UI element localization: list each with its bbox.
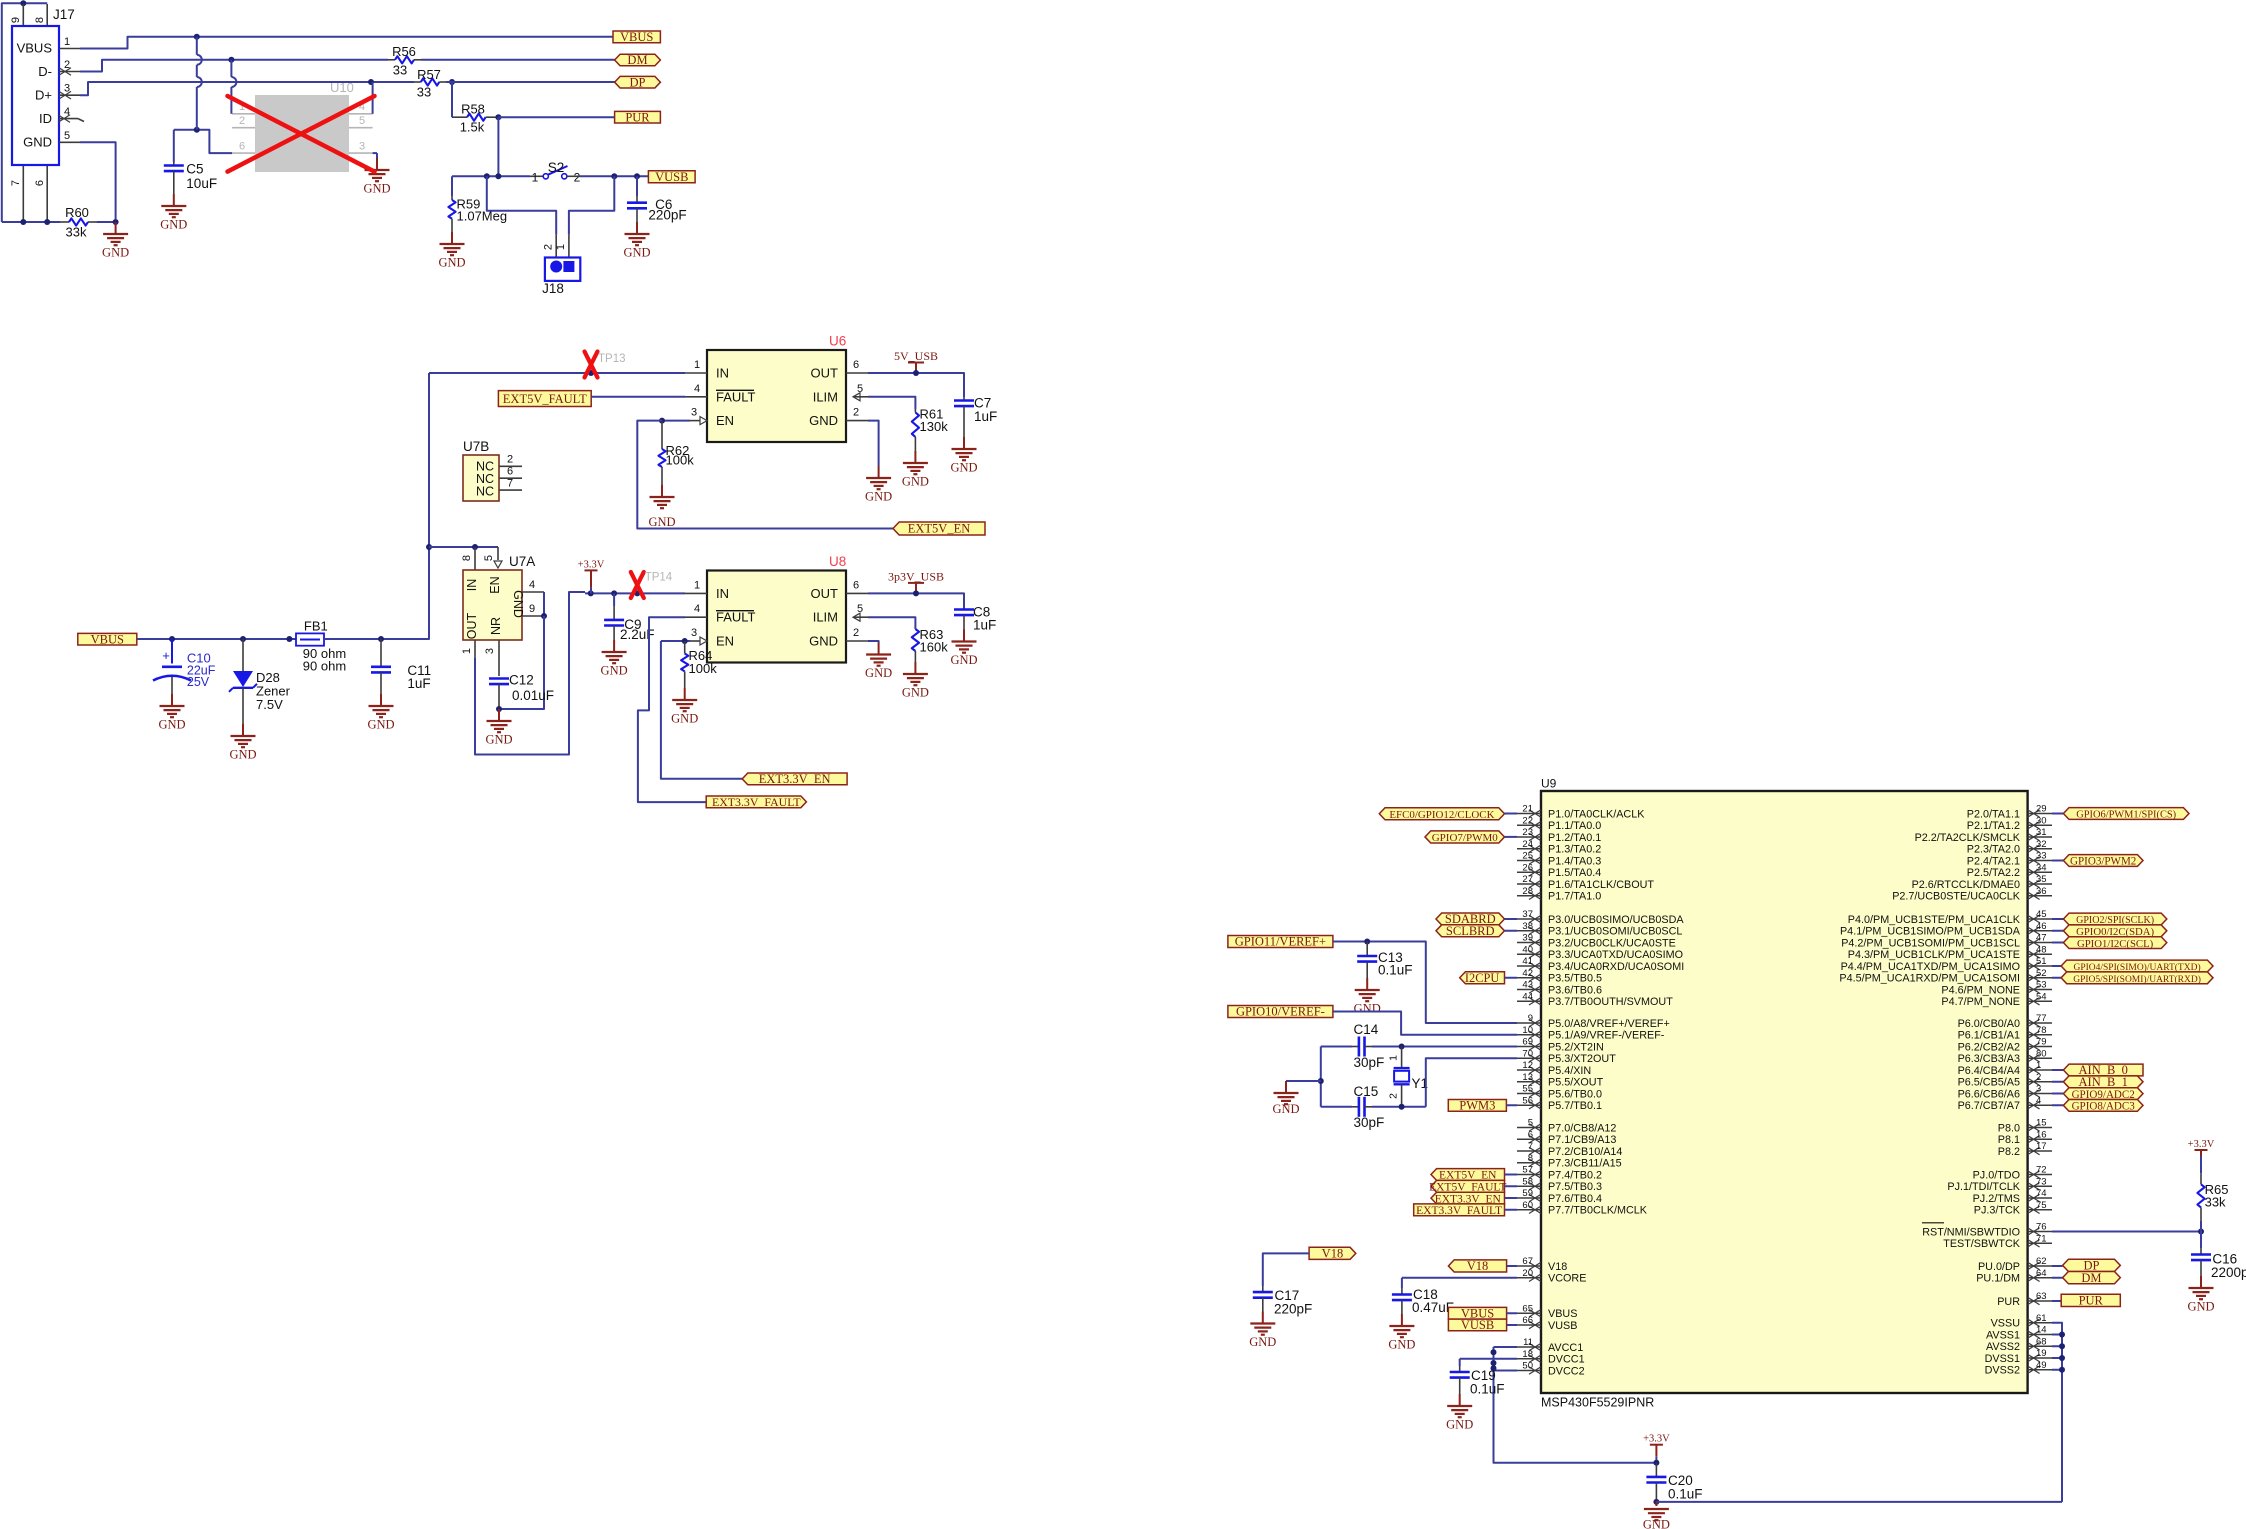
svg-text:65: 65: [1522, 1303, 1533, 1314]
svg-text:SCLBRD: SCLBRD: [1446, 924, 1495, 938]
svg-text:51: 51: [2036, 956, 2047, 967]
J17 pin 5 stub: [59, 141, 80, 143]
svg-text:1: 1: [2036, 1060, 2041, 1071]
svg-text:GPIO6/PWM1/SPI(CS): GPIO6/PWM1/SPI(CS): [2076, 810, 2176, 821]
svg-text:OUT: OUT: [465, 612, 479, 639]
svg-text:130k: 130k: [920, 419, 949, 434]
svg-text:77: 77: [2036, 1013, 2047, 1024]
svg-text:67: 67: [1522, 1256, 1533, 1267]
net flag DP (U9): [2052, 1265, 2063, 1267]
capacitor C6: [636, 176, 638, 196]
svg-text:GND: GND: [623, 246, 650, 260]
svg-text:24: 24: [1522, 839, 1533, 850]
svg-text:U7A: U7A: [509, 554, 535, 569]
svg-text:P1.4/TA0.3: P1.4/TA0.3: [1548, 855, 1601, 867]
svg-text:AVCC1: AVCC1: [1548, 1342, 1583, 1354]
ground (C18): [1401, 1300, 1403, 1314]
svg-text:75: 75: [2036, 1200, 2047, 1211]
svg-text:P3.5/TB0.5: P3.5/TB0.5: [1548, 973, 1602, 985]
capacitor C15: [1321, 1106, 1352, 1108]
svg-text:3p3V_USB: 3p3V_USB: [888, 569, 944, 583]
svg-text:0.1uF: 0.1uF: [1470, 1382, 1505, 1397]
net flag GPIO7/PWM0: [1425, 831, 1505, 843]
svg-text:AIN_B_1: AIN_B_1: [2079, 1075, 2128, 1089]
svg-text:33: 33: [2036, 851, 2047, 862]
ground (C19): [1459, 1378, 1461, 1394]
net flag I2CPU: [1460, 972, 1505, 984]
svg-text:58: 58: [1522, 1176, 1533, 1187]
wire U8 OUT to C8: [868, 593, 964, 609]
ground (C11): [380, 672, 382, 694]
svg-text:P2.7/UCB0STE/UCA0CLK: P2.7/UCB0STE/UCA0CLK: [1892, 891, 2021, 903]
capacitor C5: [173, 130, 175, 162]
net flag GPIO8/ADC3: [2052, 1104, 2063, 1106]
U8 pin 2 stub: [846, 640, 868, 642]
svg-text:GND: GND: [1249, 1335, 1276, 1349]
svg-text:54: 54: [2036, 991, 2047, 1002]
IC U7A: [474, 547, 476, 570]
svg-text:41: 41: [1522, 956, 1533, 967]
ground (R62): [661, 485, 663, 497]
svg-text:44: 44: [1522, 991, 1533, 1002]
svg-text:GND: GND: [601, 664, 628, 678]
svg-text:73: 73: [2036, 1176, 2047, 1187]
svg-text:33: 33: [417, 85, 431, 100]
svg-text:P6.0/CB0/A0: P6.0/CB0/A0: [1958, 1018, 2020, 1030]
svg-text:P3.6/TB0.6: P3.6/TB0.6: [1548, 984, 1602, 996]
wire +3.3V rail to U8 IN: [585, 592, 685, 594]
svg-text:C15: C15: [1354, 1084, 1379, 1099]
svg-text:3: 3: [691, 407, 697, 419]
U7A pin 4 stub: [522, 591, 544, 593]
svg-text:ILIM: ILIM: [813, 389, 838, 404]
capacitor C13: [1366, 942, 1368, 957]
svg-text:64: 64: [2036, 1268, 2047, 1279]
capacitor C9: [613, 593, 615, 606]
svg-text:P6.6/CB6/A6: P6.6/CB6/A6: [1958, 1088, 2020, 1100]
wire R57 to DP flag: [446, 81, 615, 83]
svg-text:DVSS1: DVSS1: [1985, 1353, 2020, 1365]
svg-text:4: 4: [694, 603, 700, 615]
svg-text:7: 7: [507, 477, 513, 489]
U9 RST/TEST pins: [2028, 1231, 2052, 1233]
wire crystal gnd branch: [1286, 1080, 1321, 1082]
svg-text:P3.1/UCB0SOMI/UCB0SCL: P3.1/UCB0SOMI/UCB0SCL: [1548, 926, 1682, 938]
svg-text:DVSS2: DVSS2: [1985, 1365, 2020, 1377]
svg-text:V18: V18: [1548, 1261, 1567, 1273]
wire VSS ground bus: [2052, 1323, 2062, 1502]
svg-text:P2.2/TA2CLK/SMCLK: P2.2/TA2CLK/SMCLK: [1915, 832, 2021, 844]
svg-text:EFC0/GPIO12/CLOCK: EFC0/GPIO12/CLOCK: [1389, 809, 1494, 821]
ferrite bead FB1: [296, 633, 324, 645]
net flag VUSB: [648, 171, 695, 183]
svg-text:45: 45: [2036, 909, 2047, 920]
svg-text:52: 52: [2036, 968, 2047, 979]
svg-text:5: 5: [857, 603, 863, 615]
svg-text:15: 15: [2036, 1118, 2047, 1129]
U7A pin 3 stub: [498, 640, 500, 676]
U9 port P8 pins (right): [2028, 1127, 2052, 1129]
svg-text:2: 2: [507, 454, 513, 466]
svg-text:100k: 100k: [689, 661, 718, 676]
svg-text:4: 4: [2036, 1095, 2041, 1106]
test point TP13 (crossed out): [585, 352, 598, 378]
svg-text:160k: 160k: [920, 640, 949, 655]
svg-text:GPIO1/I2C(SCL): GPIO1/I2C(SCL): [2077, 938, 2154, 950]
svg-text:GND: GND: [648, 515, 675, 529]
svg-text:FAULT: FAULT: [716, 610, 756, 625]
capacitor C17: [1262, 1286, 1264, 1292]
ground (C8): [963, 615, 965, 629]
capacitor C12: [489, 677, 509, 680]
net flag AIN_B_1: [2052, 1081, 2063, 1083]
wire U7A OUT loop to +3.3V rail: [475, 592, 585, 755]
U6 pin 3 stub: [690, 420, 700, 422]
wire crystal left rail: [1320, 1047, 1322, 1107]
svg-text:GND: GND: [367, 718, 394, 732]
svg-text:0.01uF: 0.01uF: [512, 688, 554, 703]
svg-text:TP14: TP14: [645, 572, 673, 584]
svg-text:U7B: U7B: [463, 439, 489, 454]
svg-text:GND: GND: [2187, 1300, 2214, 1314]
svg-text:P4.3/PM_UCB1CLK/PM_UCA1STE: P4.3/PM_UCB1CLK/PM_UCA1STE: [1848, 949, 2020, 961]
svg-text:P8.2: P8.2: [1998, 1146, 2020, 1158]
red X over U10: [228, 96, 375, 172]
svg-text:GND: GND: [229, 748, 256, 762]
svg-text:7.5V: 7.5V: [256, 697, 283, 712]
U7B pin 2 stub: [499, 465, 522, 467]
svg-text:R60: R60: [65, 205, 89, 220]
wire DM rail: [80, 60, 388, 72]
svg-text:53: 53: [2036, 980, 2047, 991]
net flag VBUS (U9): [1448, 1307, 1506, 1319]
svg-text:3: 3: [2036, 1084, 2041, 1095]
J17 pin 1 stub: [59, 48, 80, 50]
svg-text:5: 5: [359, 115, 365, 127]
net flag EXT3.3V_FAULT: [706, 796, 806, 808]
capacitor C11: [380, 639, 382, 667]
svg-text:28: 28: [1522, 886, 1533, 897]
svg-text:25: 25: [1522, 851, 1533, 862]
svg-text:P1.1/TA0.0: P1.1/TA0.0: [1548, 820, 1601, 832]
svg-text:78: 78: [2036, 1025, 2047, 1036]
net flag V18 (U9): [1448, 1260, 1506, 1272]
svg-text:GPIO5/SPI(SOMI)/UART(RXD): GPIO5/SPI(SOMI)/UART(RXD): [2073, 974, 2201, 985]
wire FB1 to C11 and U6: [324, 373, 429, 639]
svg-text:76: 76: [2036, 1222, 2047, 1233]
svg-text:I2CPU: I2CPU: [1465, 971, 1499, 985]
svg-text:PJ.0/TDO: PJ.0/TDO: [1973, 1169, 2020, 1181]
svg-text:P3.0/UCB0SIMO/UCB0SDA: P3.0/UCB0SIMO/UCB0SDA: [1548, 914, 1684, 926]
svg-text:P7.3/CB11/A15: P7.3/CB11/A15: [1548, 1158, 1622, 1170]
U6 pin 2 stub: [846, 420, 868, 422]
net flag GPIO11/VEREF+: [1228, 936, 1333, 948]
svg-text:U6: U6: [829, 334, 846, 349]
svg-text:9: 9: [529, 603, 535, 615]
U9 port P2 pins (right): [2028, 813, 2052, 815]
svg-text:PU.0/DP: PU.0/DP: [1978, 1261, 2020, 1273]
svg-text:2: 2: [574, 171, 581, 185]
U9 PUR pin: [2028, 1300, 2052, 1302]
wire crystal to U9 pin 70: [1426, 1058, 1517, 1107]
svg-text:13: 13: [1522, 1072, 1533, 1083]
U9 port P4 pins (right): [2028, 918, 2052, 920]
svg-text:PJ.3/TCK: PJ.3/TCK: [1974, 1205, 2021, 1217]
net flag EFC0/GPIO12/CLOCK: [1379, 808, 1504, 820]
svg-text:2: 2: [64, 59, 70, 71]
net flag EXT5V_FAULT: [498, 391, 591, 407]
capacitor C7: [963, 397, 965, 401]
U9 AVCC/DVCC pins: [1517, 1346, 1541, 1348]
net flag PUR: [615, 111, 661, 123]
ground (crystal): [1285, 1081, 1287, 1093]
wire J18 pin1 branch: [569, 176, 614, 235]
svg-text:6: 6: [34, 180, 46, 186]
svg-text:DVCC1: DVCC1: [1548, 1354, 1585, 1366]
svg-text:GND: GND: [1388, 1338, 1415, 1352]
net flag VBUS (regulator input): [78, 633, 137, 645]
svg-text:8: 8: [1528, 1153, 1533, 1164]
svg-text:VUSB: VUSB: [1548, 1320, 1577, 1332]
svg-text:66: 66: [1522, 1315, 1533, 1326]
connector J17 body: [12, 26, 59, 165]
svg-text:P2.6/RTCCLK/DMAE0: P2.6/RTCCLK/DMAE0: [1912, 879, 2020, 891]
net flag DP: [615, 76, 661, 88]
svg-text:19: 19: [2036, 1348, 2047, 1359]
svg-text:18: 18: [1522, 1349, 1533, 1360]
svg-text:74: 74: [2036, 1188, 2047, 1199]
svg-text:10uF: 10uF: [186, 176, 217, 191]
svg-text:P1.6/TA1CLK/CBOUT: P1.6/TA1CLK/CBOUT: [1548, 879, 1654, 891]
U8 pin 3 stub: [690, 640, 700, 642]
wire EXT5V_FAULT to U6 pin4: [591, 396, 685, 398]
U9 PU.0/PU.1 pins: [2028, 1265, 2052, 1267]
svg-text:8: 8: [461, 555, 473, 561]
svg-text:5: 5: [483, 555, 495, 561]
svg-text:VCORE: VCORE: [1548, 1273, 1586, 1285]
svg-text:P2.1/TA1.2: P2.1/TA1.2: [1967, 820, 2020, 832]
net flag EXT3.3V_EN (U9): [1431, 1192, 1505, 1204]
svg-text:GND: GND: [809, 634, 838, 649]
net flag PUR (U9): [2052, 1300, 2061, 1302]
U9 port P1 pins (left): [1517, 813, 1541, 815]
wire U6 ILIM to R61: [868, 397, 915, 409]
svg-text:6: 6: [507, 466, 513, 478]
svg-text:MSP430F5529IPNR: MSP430F5529IPNR: [1541, 1396, 1654, 1410]
svg-text:P6.4/CB4/A4: P6.4/CB4/A4: [1958, 1065, 2020, 1077]
U9 port P6 pins (right): [2028, 1022, 2052, 1024]
svg-text:GND: GND: [902, 686, 929, 700]
svg-text:GND: GND: [809, 413, 838, 428]
svg-text:46: 46: [2036, 921, 2047, 932]
svg-text:P3.3/UCA0TXD/UCA0SIMO: P3.3/UCA0TXD/UCA0SIMO: [1548, 949, 1683, 961]
svg-text:P7.5/TB0.3: P7.5/TB0.3: [1548, 1181, 1602, 1193]
J17 pin 3 stub: [59, 94, 80, 96]
U9 V18/VCORE pins: [1517, 1265, 1541, 1267]
svg-text:P4.2/PM_UCB1SOMI/PM_UCB1SCL: P4.2/PM_UCB1SOMI/PM_UCB1SCL: [1841, 937, 2020, 949]
connector J17 shield loop: [2, 3, 24, 222]
svg-text:D+: D+: [35, 88, 52, 103]
svg-text:6: 6: [853, 359, 859, 371]
wire U8 FAULT to EXT3.3V_FAULT: [638, 617, 706, 802]
svg-text:1: 1: [64, 36, 70, 48]
capacitor C14: [1321, 1046, 1352, 1048]
svg-text:P3.4/UCA0RXD/UCA0SOMI: P3.4/UCA0RXD/UCA0SOMI: [1548, 961, 1684, 973]
svg-text:PUR: PUR: [2079, 1294, 2104, 1308]
svg-text:2: 2: [853, 407, 859, 419]
wire DP rail: [80, 82, 414, 95]
net flag EXT5V_EN: [893, 522, 985, 535]
svg-text:C5: C5: [186, 162, 203, 177]
svg-text:2: 2: [853, 627, 859, 639]
net flag GPIO10/VEREF-: [1228, 1006, 1333, 1018]
wire U8 GND pin to ground: [868, 641, 879, 643]
svg-text:2: 2: [239, 115, 245, 127]
svg-text:79: 79: [2036, 1037, 2047, 1048]
svg-text:49: 49: [2036, 1360, 2047, 1371]
svg-text:P5.2/XT2IN: P5.2/XT2IN: [1548, 1041, 1604, 1053]
svg-text:4: 4: [694, 383, 700, 395]
ground (R59): [451, 232, 453, 244]
svg-text:5V_USB: 5V_USB: [894, 349, 938, 363]
svg-text:P3.7/TB0OUTH/SVMOUT: P3.7/TB0OUTH/SVMOUT: [1548, 996, 1673, 1008]
svg-text:8: 8: [34, 17, 46, 23]
svg-text:35: 35: [2036, 874, 2047, 885]
svg-text:5: 5: [857, 383, 863, 395]
U9 port P7 pins (left): [1517, 1127, 1541, 1129]
svg-text:80: 80: [2036, 1048, 2047, 1059]
svg-text:ILIM: ILIM: [813, 610, 838, 625]
svg-text:GND: GND: [438, 256, 465, 270]
svg-text:3: 3: [64, 83, 70, 95]
svg-text:30pF: 30pF: [1354, 1115, 1385, 1130]
svg-text:56: 56: [1522, 1095, 1533, 1106]
svg-text:2: 2: [543, 244, 555, 250]
connector J17 shield pins 7 6: [22, 165, 24, 221]
svg-text:IN: IN: [465, 579, 479, 592]
J17 pin 2 stub: [59, 71, 80, 73]
svg-text:J17: J17: [53, 7, 75, 22]
svg-text:4: 4: [529, 579, 535, 591]
svg-text:R58: R58: [461, 102, 485, 117]
svg-text:47: 47: [2036, 933, 2047, 944]
svg-text:62: 62: [2036, 1256, 2047, 1267]
ground (R60): [113, 219, 119, 225]
svg-text:+3.3V: +3.3V: [2188, 1139, 2215, 1150]
svg-text:EXT5V_EN: EXT5V_EN: [908, 522, 971, 536]
resistor R56: [388, 59, 395, 61]
svg-text:31: 31: [2036, 827, 2047, 838]
svg-text:R56: R56: [392, 44, 416, 59]
svg-text:61: 61: [2036, 1313, 2047, 1324]
svg-text:VBUS: VBUS: [620, 30, 653, 44]
svg-text:P6.1/CB1/A1: P6.1/CB1/A1: [1958, 1030, 2020, 1042]
svg-text:P5.4/XIN: P5.4/XIN: [1548, 1065, 1591, 1077]
svg-text:P7.1/CB9/A13: P7.1/CB9/A13: [1548, 1134, 1616, 1146]
svg-text:GND: GND: [671, 712, 698, 726]
net flag EXT5V_EN (U9): [1431, 1169, 1505, 1181]
svg-text:P5.0/A8/VREF+/VEREF+: P5.0/A8/VREF+/VEREF+: [1548, 1018, 1670, 1030]
svg-text:U10: U10: [330, 80, 354, 95]
ground (C17): [1262, 1298, 1264, 1312]
svg-text:+: +: [162, 648, 170, 663]
U6 pin 4 stub: [685, 396, 707, 398]
svg-text:FAULT: FAULT: [716, 389, 756, 404]
svg-text:GND: GND: [902, 475, 929, 489]
svg-text:5: 5: [64, 130, 70, 142]
wire shield bottom rail: [2, 221, 60, 223]
resistor R59: [451, 176, 453, 196]
resistor R64: [684, 641, 686, 654]
net flag GPIO4/SPI(SIMO)/UART(TXD): [2052, 965, 2061, 967]
svg-text:ID: ID: [39, 111, 52, 126]
svg-text:42: 42: [1522, 968, 1533, 979]
svg-text:220pF: 220pF: [648, 208, 686, 223]
svg-text:14: 14: [2036, 1325, 2047, 1336]
IC U7B: [463, 455, 499, 501]
svg-text:P7.6/TB0.4: P7.6/TB0.4: [1548, 1193, 1602, 1205]
svg-text:OUT: OUT: [811, 586, 839, 601]
svg-text:PUR: PUR: [1997, 1296, 2020, 1308]
net flag DM (U9): [2052, 1277, 2063, 1279]
svg-text:25V: 25V: [187, 675, 210, 689]
U9 port P5 pins (left): [1517, 1022, 1541, 1024]
svg-text:PWM3: PWM3: [1459, 1099, 1495, 1113]
ground (D28): [242, 688, 244, 724]
svg-text:GPIO7/PWM0: GPIO7/PWM0: [1432, 832, 1499, 844]
svg-text:6: 6: [853, 579, 859, 591]
svg-text:PU.1/DM: PU.1/DM: [1976, 1273, 2020, 1285]
U9 VBUS/VUSB pins: [1517, 1312, 1541, 1314]
svg-text:AVSS2: AVSS2: [1986, 1341, 2020, 1353]
svg-text:P5.6/TB0.0: P5.6/TB0.0: [1548, 1088, 1602, 1100]
svg-text:P4.6/PM_NONE: P4.6/PM_NONE: [1941, 984, 2020, 996]
svg-text:36: 36: [2036, 886, 2047, 897]
svg-text:43: 43: [1522, 980, 1533, 991]
svg-text:GND: GND: [1446, 1418, 1473, 1432]
svg-text:39: 39: [1522, 933, 1533, 944]
IC U10 (unpopulated): [255, 95, 349, 172]
svg-text:30: 30: [2036, 815, 2047, 826]
svg-text:2: 2: [2036, 1072, 2041, 1083]
svg-text:P6.3/CB3/A3: P6.3/CB3/A3: [1958, 1053, 2020, 1065]
svg-text:1: 1: [555, 244, 567, 250]
ground (C10): [171, 677, 173, 694]
svg-text:6: 6: [239, 140, 245, 152]
wire PUR: [495, 114, 501, 120]
resistor R65: [2200, 1162, 2202, 1173]
ground (C16): [2200, 1260, 2202, 1276]
U7A pin 9 stub: [522, 615, 544, 617]
svg-text:P1.2/TA0.1: P1.2/TA0.1: [1548, 832, 1601, 844]
svg-text:EXT3.3V_EN: EXT3.3V_EN: [759, 772, 831, 786]
U7B pin 6 stub: [499, 477, 522, 479]
svg-text:10: 10: [1522, 1025, 1533, 1036]
svg-text:69: 69: [1522, 1037, 1533, 1048]
svg-text:GPIO3/PWM2: GPIO3/PWM2: [2070, 856, 2136, 868]
IC U9 MSP430F5529IPNR body: [1541, 791, 2028, 1393]
svg-text:P8.0: P8.0: [1998, 1122, 2020, 1134]
ground (C20): [1655, 1502, 1657, 1506]
ground (R61): [914, 451, 916, 463]
svg-text:11: 11: [1523, 1337, 1533, 1348]
svg-text:P2.3/TA2.0: P2.3/TA2.0: [1967, 844, 2020, 856]
svg-text:33k: 33k: [2205, 1195, 2226, 1210]
net flag GPIO6/PWM1/SPI(CS): [2052, 813, 2063, 815]
svg-text:GND: GND: [485, 733, 512, 747]
wire J18 pin2 branch: [487, 176, 556, 235]
wire EN to EXT3.3V_EN flag: [661, 641, 742, 779]
